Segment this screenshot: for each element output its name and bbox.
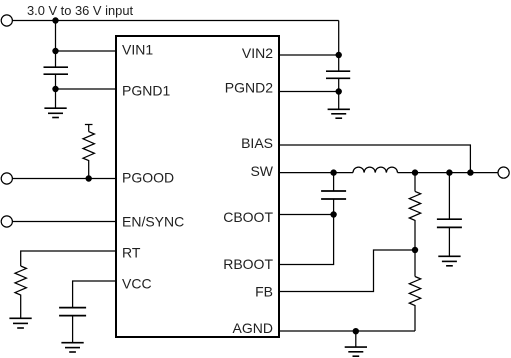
resistor RT [15, 266, 26, 318]
ground [44, 108, 66, 117]
svg-text:VIN2: VIN2 [242, 45, 273, 61]
wire [338, 21, 340, 72]
svg-text:PGND1: PGND1 [122, 83, 170, 99]
wire [448, 173, 450, 220]
wire [13, 221, 117, 223]
ground [438, 256, 460, 266]
wire [72, 316, 74, 343]
wire [355, 331, 357, 347]
svg-text:3.0 V to 36 V input: 3.0 V to 36 V input [27, 3, 133, 18]
capacitor C2 [326, 71, 350, 78]
node I [330, 211, 336, 217]
node G [467, 169, 473, 175]
wire [13, 178, 117, 180]
node D [86, 175, 92, 181]
node EN terminal [1, 216, 12, 227]
wire [56, 88, 117, 90]
wire [414, 250, 416, 277]
wire [55, 21, 57, 68]
wire [333, 199, 335, 215]
node F [336, 88, 342, 94]
node B [52, 48, 58, 54]
wire [279, 215, 334, 265]
node E [336, 52, 342, 58]
svg-text:PGND2: PGND2 [225, 79, 273, 95]
capacitor CBOOT [321, 191, 346, 199]
svg-text:PGOOD: PGOOD [122, 170, 174, 186]
node SW output terminal [498, 167, 509, 178]
wire [279, 145, 470, 173]
svg-text:VIN1: VIN1 [122, 42, 153, 58]
wire [73, 281, 116, 308]
svg-text:VCC: VCC [122, 275, 152, 291]
svg-text:AGND: AGND [233, 320, 273, 336]
svg-text:RBOOT: RBOOT [223, 256, 273, 272]
wire [55, 89, 57, 108]
capacitor COUT [437, 219, 462, 227]
svg-text:FB: FB [255, 284, 273, 300]
svg-text:CBOOT: CBOOT [223, 209, 273, 225]
wire [279, 91, 339, 93]
IC U1 regulator [116, 36, 279, 337]
node L [446, 169, 452, 175]
wire [279, 214, 334, 216]
svg-text:BIAS: BIAS [241, 135, 273, 151]
wire [21, 251, 116, 266]
wire [55, 74, 57, 89]
wire [338, 78, 340, 109]
wire [414, 173, 416, 192]
resistor RFB1 [409, 191, 420, 250]
svg-text:SW: SW [250, 163, 273, 179]
resistor RFB2 [409, 277, 420, 332]
node PGOOD terminal [1, 173, 12, 184]
wire [13, 20, 339, 22]
wire [398, 172, 499, 174]
node C [52, 86, 58, 92]
resistor RPG [83, 125, 94, 179]
wire [333, 173, 335, 191]
wire [279, 330, 415, 332]
node K [412, 247, 418, 253]
ground [61, 343, 83, 352]
wire [448, 227, 450, 256]
wire [279, 250, 415, 292]
capacitor C1 [44, 67, 69, 74]
svg-text:RT: RT [122, 245, 141, 261]
wire [279, 172, 353, 174]
node H [330, 169, 336, 175]
node A [52, 17, 58, 23]
wire [279, 54, 339, 56]
ground [9, 318, 31, 328]
capacitor C3 [59, 308, 86, 316]
ground [345, 347, 367, 356]
node input terminal [1, 15, 12, 26]
node M [353, 328, 359, 334]
inductor L1 [353, 167, 397, 173]
wire [56, 50, 117, 52]
node J [412, 169, 418, 175]
ground [328, 109, 350, 118]
svg-text:EN/SYNC: EN/SYNC [122, 214, 184, 230]
